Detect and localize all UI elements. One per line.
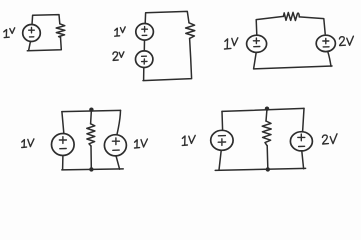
voltage source V2 (1V) [136,24,154,41]
wire: V7 bottom to rail [116,157,119,170]
wire: rail to V8 top [221,111,224,130]
label 1V (source V2 value) [115,27,126,36]
V3 plus sign [142,59,147,64]
resistor R4 [87,124,95,146]
label 1V (source V7 value) [135,139,148,148]
wire: rail to V7 top [117,110,121,134]
voltage source V8 (1V, reversed) [211,130,233,150]
resistor R3 [283,12,299,20]
V3 minus sign [142,55,147,57]
label 1V (source V6 value) [22,139,34,148]
V7 plus sign [112,138,119,145]
wire: R5 to bottom node [266,146,269,168]
label 2V (source V3 value) [113,52,124,61]
label 1V (source V1 value) [4,28,15,38]
voltage source V1 (1V) [23,25,41,42]
junction node (bottom) [266,167,270,171]
wire: rail to V6 top [62,112,64,133]
top rail [62,110,121,111]
voltage source V7 (1V) [104,135,126,156]
wire: R2 bottom to bottom rail to V3 bottom [143,38,192,80]
wire: top node to R5 [266,109,267,121]
resistor R5 [262,121,271,146]
label 2V (source V5 value) [339,36,353,45]
wire: R3 to right rail down to V5 top [299,17,325,34]
V5 plus sign [323,38,329,43]
wire: top node to R4 [90,110,93,124]
V8 plus sign [218,139,225,146]
resistor R1 [56,24,65,38]
wire: R4 to bottom node [90,146,92,167]
V4 minus sign [254,46,260,48]
V5 minus sign [323,46,329,48]
wire: V8 bottom to rail [219,150,221,170]
voltage source V6 (1V) [52,134,75,156]
top rail [222,108,304,111]
voltage source V4 (1V) [247,35,267,52]
V7 minus sign [113,149,119,151]
bottom rail [62,169,123,170]
V6 minus sign [60,148,66,150]
V1 minus sign [30,36,34,38]
wire: V1 top to top rail to R1 [32,15,60,25]
junction node (top) [265,107,269,111]
voltage source V5 (2V) [316,35,335,51]
wire: R1 bottom to bottom rail to V1 bottom [27,37,61,51]
junction node (bottom) [89,167,93,171]
V9 minus sign [299,145,305,147]
label 1V (source V8 value) [182,135,195,145]
wire: V2 bottom to V3 top [143,40,145,51]
wire: V4 bottom to bottom rail to V5 bottom [254,51,332,69]
V2 plus sign [142,27,148,32]
wire: V4 top to rail to R3 [256,16,283,35]
wire: V6 bottom to rail [62,156,64,170]
voltage source V3 (2V, reversed) [136,51,153,68]
wire: V2 top to top rail to R2 [145,11,189,23]
V8 minus sign [218,135,225,137]
wire: rail to V9 top [303,108,304,131]
V6 plus sign [59,137,66,144]
V9 plus sign [298,134,305,141]
voltage source V9 (2V) [290,132,312,151]
V2 minus sign [142,34,147,36]
label 1V (source V4 value) [225,38,238,49]
junction node (top) [89,108,93,112]
resistor R2 [186,23,195,39]
bottom rail [215,168,305,170]
V1 plus sign [29,28,35,33]
V4 plus sign [253,38,259,44]
wire: V9 bottom to rail [302,151,304,169]
label 2V (source V9 value) [322,134,337,144]
